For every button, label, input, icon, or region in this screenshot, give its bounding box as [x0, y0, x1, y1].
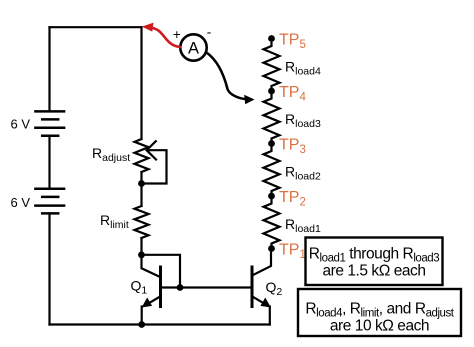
- resistor Rlimit: [135, 206, 149, 238]
- wire node to Rlimit: [140, 184, 142, 207]
- svg-text:TP5: TP5: [279, 32, 306, 51]
- wire Radjust to node: [140, 172, 142, 184]
- resistor Rload4: [264, 39, 280, 92]
- node Q1 base tie: [177, 284, 184, 291]
- resistor Radjust (rheostat): [135, 139, 149, 172]
- svg-text:Q2: Q2: [266, 279, 283, 298]
- wire left rail lower: [48, 213, 50, 324]
- svg-text:+: +: [173, 27, 181, 42]
- note box 2: [298, 289, 461, 336]
- node TP4: [268, 88, 275, 95]
- transistor Q2: [252, 249, 271, 308]
- wire middle branch upper: [140, 27, 142, 139]
- battery B2 6V: [35, 189, 64, 214]
- svg-text:Rload2: Rload2: [285, 164, 321, 183]
- svg-text:Rload1: Rload1: [285, 216, 321, 235]
- wire top rail: [50, 26, 142, 28]
- wire bottom rail: [50, 323, 270, 325]
- svg-text:A: A: [188, 40, 199, 58]
- svg-text:are 10 kΩ each: are 10 kΩ each: [330, 318, 429, 335]
- svg-text:TP4: TP4: [279, 84, 306, 103]
- node Q1 emitter/rail junction: [138, 321, 145, 328]
- wire red meter lead: [142, 23, 180, 47]
- wire black meter lead: [207, 53, 247, 100]
- note box 1: [298, 238, 461, 337]
- ammeter A: [180, 34, 206, 60]
- svg-text:are 1.5 kΩ each: are 1.5 kΩ each: [322, 263, 425, 280]
- wire between batteries: [48, 136, 50, 189]
- svg-text:6 V: 6 V: [11, 195, 31, 210]
- svg-text:Q1: Q1: [131, 278, 148, 297]
- node TP1: [268, 245, 275, 252]
- svg-text:TP1: TP1: [279, 242, 306, 261]
- battery B1 6V: [35, 111, 64, 135]
- svg-text:TP3: TP3: [279, 137, 306, 156]
- node Radjust/Rlimit junction: [138, 180, 145, 187]
- resistor Rload2: [264, 144, 280, 197]
- Radjust wiper arrow: [142, 141, 167, 183]
- svg-text:TP2: TP2: [279, 189, 306, 208]
- resistor Rload3: [264, 91, 280, 144]
- transistor Q1: [142, 255, 161, 308]
- node TP2: [268, 193, 275, 200]
- wire left rail upper: [48, 27, 50, 111]
- wire Q1 collector-base tie: [142, 255, 181, 288]
- svg-text:Rload4: Rload4: [285, 59, 321, 78]
- resistor Rload1: [264, 196, 280, 249]
- wire Q1 emitter to bottom rail: [141, 307, 143, 325]
- svg-text:6 V: 6 V: [11, 117, 31, 132]
- svg-text:Rload3: Rload3: [285, 111, 321, 130]
- svg-text:Radjust: Radjust: [92, 145, 130, 164]
- node TP5: [268, 35, 275, 42]
- node Q1 collector/base tie: [138, 251, 145, 258]
- node TP3: [268, 140, 275, 147]
- wire Q2 emitter to bottom rail: [269, 307, 271, 325]
- wire base line Q1 to Q2: [161, 286, 253, 288]
- wire Rlimit to Q1 collector node: [140, 238, 142, 255]
- svg-text:Rlimit: Rlimit: [100, 212, 129, 231]
- svg-text:-: -: [207, 25, 212, 40]
